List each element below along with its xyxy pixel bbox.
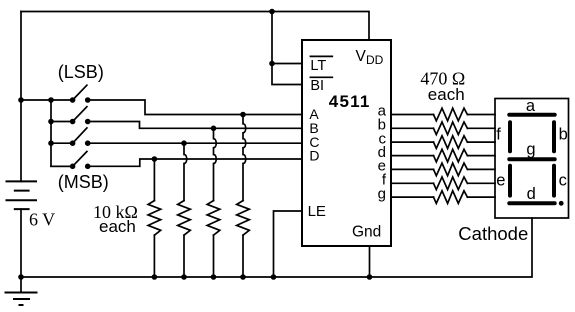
resistor Rd 470 ohm body — [434, 149, 468, 162]
svg-text:f: f — [496, 125, 501, 143]
switch SW-C throw contact — [85, 140, 91, 146]
wire: IC pin d to resistor — [391, 155, 434, 157]
resistor R3 10k (line B pulldown): lead with hops over C,D — [214, 128, 217, 200]
node: rail junction x=184 — [181, 274, 187, 280]
resistor R2 10k body — [178, 201, 191, 236]
svg-text:LE: LE — [308, 203, 326, 220]
wire: resistor to display segment f — [467, 182, 495, 184]
wire: IC pin g to resistor — [391, 196, 434, 198]
resistor R2 10k (line C pulldown): lead with hop over D — [184, 143, 187, 200]
wire: battery - to ground and bottom rail — [20, 209, 22, 292]
display segment b — [552, 122, 556, 151]
wire: resistor to display segment d — [467, 155, 495, 157]
node: rail junction x=369.5 — [367, 274, 373, 280]
wire: IC pin e to resistor — [391, 168, 434, 170]
wire: R1 to rail — [153, 235, 155, 277]
node: bus junction y=143.2 — [48, 140, 54, 146]
svg-text:e: e — [496, 171, 505, 189]
wire: switch bus vertical — [51, 100, 73, 166]
battery plate long — [6, 199, 38, 201]
wire: R3 to rail — [213, 235, 215, 277]
resistor R4 10k (line A pulldown): lead with hops over B,C,D — [243, 115, 246, 201]
resistor R1 10k (line D pulldown): lead — [153, 159, 155, 201]
svg-text:each: each — [99, 217, 136, 236]
wire: resistor to display segment b — [467, 127, 495, 129]
wire: switch B to IC pin B — [88, 122, 302, 129]
switch SW-D pole contact — [70, 164, 76, 170]
svg-text:6 V: 6 V — [29, 209, 55, 229]
svg-text:BI: BI — [310, 78, 324, 94]
wire: LE pin to ground rail — [274, 211, 303, 277]
resistor Rg 470 ohm body — [434, 191, 468, 204]
svg-text:V: V — [356, 48, 367, 65]
resistor R1 10k body — [148, 201, 161, 236]
svg-text:Cathode: Cathode — [458, 223, 528, 244]
switch SW-D blade — [73, 152, 87, 167]
display segment f — [508, 122, 512, 151]
wire: bus to switch B pole — [51, 121, 73, 123]
node: rail junction x=154.4 — [152, 274, 158, 280]
wire: resistor to display segment g — [467, 196, 495, 198]
node: rail junction x=243 — [240, 274, 246, 280]
op-amp U1 4511 BCD to 7-seg decoder IC box — [302, 40, 391, 246]
node: top rail junction above LT/BI — [269, 9, 275, 15]
display segment e — [508, 166, 512, 196]
ground symbol — [5, 293, 38, 306]
wire: V+ top rail from battery to IC Vdd pin — [21, 12, 369, 41]
switch SW-B blade — [73, 107, 87, 122]
label: BI pin (active low bar) — [310, 76, 332, 78]
resistor Rb 470 ohm body — [434, 122, 468, 135]
wire: IC pin b to resistor — [391, 127, 434, 129]
wire: switch D to IC pin D — [88, 159, 302, 166]
battery B1 6V: plate long top — [6, 180, 38, 182]
resistor Re 470 ohm body — [434, 163, 468, 176]
wire: IC pin f to resistor — [391, 182, 434, 184]
switch SW-A pole contact — [70, 97, 76, 103]
wire: IC pin a to resistor — [391, 114, 434, 116]
resistor R4 10k body — [237, 201, 250, 236]
wire: resistor to display segment a — [467, 114, 495, 116]
svg-text:a: a — [526, 97, 536, 115]
wire: R4 to rail — [242, 235, 244, 277]
display segment a — [509, 113, 554, 117]
display segment d — [509, 201, 554, 205]
node: LT/BI branch junction — [269, 61, 275, 67]
switch SW-B pole contact — [70, 119, 76, 125]
svg-text:(LSB): (LSB) — [58, 62, 104, 82]
switch SW-B throw contact — [85, 119, 91, 125]
svg-text:b: b — [559, 125, 568, 143]
node: feed at battery wire — [18, 97, 24, 103]
wire: drop from top rail to LT pin — [272, 12, 302, 64]
node: rail junction x=213.5 — [211, 274, 217, 280]
wire: R2 to rail — [183, 235, 185, 277]
resistor Rc 470 ohm body — [434, 136, 468, 149]
wire: branch to BI pin — [272, 64, 302, 85]
svg-text:d: d — [527, 185, 536, 203]
wire: switch C to IC pin C — [88, 142, 302, 144]
display decimal point — [559, 201, 564, 206]
7-segment display box — [495, 99, 569, 219]
wire: switch A to IC pin A — [88, 100, 302, 115]
svg-text:DD: DD — [366, 53, 384, 67]
svg-text:4511: 4511 — [329, 92, 371, 111]
wire: left vertical from top rail to battery + — [20, 12, 22, 182]
svg-text:each: each — [428, 85, 465, 104]
node: pulldown tap on line B — [211, 126, 217, 132]
svg-text:(MSB): (MSB) — [58, 172, 109, 192]
wire: battery + feed to switch bus — [21, 99, 51, 101]
node: battery/ground/rail junction — [18, 274, 24, 280]
label: LT pin (active low bar) — [310, 55, 332, 57]
wire: bus to switch D pole — [51, 165, 73, 167]
display segment g — [509, 157, 554, 161]
battery plate short — [14, 190, 30, 192]
wire: IC pin c to resistor — [391, 141, 434, 143]
battery plate short bottom — [14, 208, 30, 210]
node: bus junction y=100.0 — [48, 97, 54, 103]
resistor Rf 470 ohm body — [434, 177, 468, 190]
svg-text:D: D — [309, 148, 319, 164]
node: pulldown tap on line A — [240, 112, 246, 118]
wire: bus to switch A pole — [51, 99, 73, 101]
switch SW-C blade — [73, 128, 87, 143]
wire: resistor to display segment e — [467, 168, 495, 170]
switch SW-A blade — [73, 85, 87, 100]
switch SW-A throw contact — [85, 97, 91, 103]
svg-text:LT: LT — [310, 58, 326, 74]
wire: IC Gnd pin to rail — [369, 246, 371, 277]
node: pulldown tap on line C — [181, 140, 187, 146]
svg-text:g: g — [526, 141, 535, 159]
node: rail junction x=273.5 — [271, 274, 277, 280]
switch SW-D throw contact — [85, 164, 91, 170]
wire: ground rail bottom — [21, 218, 532, 277]
wire: resistor to display segment c — [467, 141, 495, 143]
svg-text:g: g — [378, 185, 386, 202]
node: bus junction y=121.5 — [48, 119, 54, 125]
svg-text:c: c — [559, 171, 567, 189]
switch SW-C pole contact — [70, 140, 76, 146]
display segment c — [552, 166, 556, 196]
wire: bus to switch C pole — [51, 142, 73, 144]
svg-text:Gnd: Gnd — [352, 224, 381, 241]
resistor R3 10k body — [207, 201, 220, 236]
resistor Ra 470 ohm body — [434, 108, 468, 121]
node: pulldown tap on line D — [152, 156, 158, 162]
